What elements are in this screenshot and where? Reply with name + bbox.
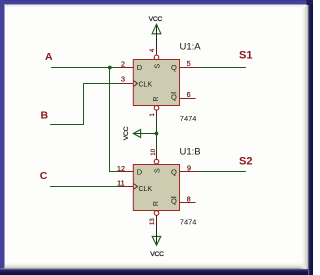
svg-text:R: R — [153, 97, 160, 102]
U1:B pin 8 (Q-bar) — [171, 194, 196, 205]
svg-text:12: 12 — [117, 164, 125, 173]
svg-text:S1: S1 — [239, 50, 252, 62]
svg-text:B: B — [41, 110, 49, 122]
power VCC terminal (middle) — [123, 126, 157, 140]
power VCC terminal (bottom) — [150, 222, 164, 258]
U1:A value label 7474 — [180, 114, 197, 123]
svg-text:7474: 7474 — [180, 114, 197, 123]
U1:B value label 7474 — [180, 217, 197, 226]
svg-text:CLK: CLK — [139, 81, 153, 88]
svg-text:Q: Q — [171, 92, 177, 101]
svg-text:S2: S2 — [239, 155, 252, 167]
flip-flop U1:A body (7474) — [133, 60, 179, 106]
svg-text:11: 11 — [117, 178, 124, 187]
svg-text:7474: 7474 — [180, 217, 197, 226]
svg-text:A: A — [45, 51, 53, 63]
U1:A designator label — [180, 41, 202, 52]
svg-text:VCC: VCC — [150, 251, 164, 258]
U1:A pin 3 (CLK) — [119, 74, 153, 88]
svg-text:VCC: VCC — [123, 126, 130, 140]
net label S2 — [239, 155, 252, 167]
svg-text:5: 5 — [187, 59, 191, 68]
net label B — [41, 110, 49, 122]
U1:B pin 11 (CLK) — [117, 178, 152, 193]
U1:B pin 13 (R-bar, bottom) — [150, 201, 160, 225]
U1:A pin 2 (D) — [119, 59, 143, 72]
svg-text:Q: Q — [171, 168, 177, 177]
U1:B designator label — [180, 146, 201, 157]
svg-text:S: S — [154, 64, 161, 69]
svg-text:U1:A: U1:A — [180, 41, 202, 52]
U1:A pin 4 (S-bar, top) — [150, 48, 161, 68]
net label A — [45, 51, 53, 63]
svg-text:9: 9 — [187, 163, 191, 172]
wire from node on wire A down to U1:B pin 12 — [110, 68, 120, 172]
svg-text:Q: Q — [171, 63, 177, 72]
svg-text:CLK: CLK — [139, 186, 153, 193]
svg-text:3: 3 — [121, 74, 125, 83]
svg-text:2: 2 — [121, 59, 125, 68]
wire A from input A to U1:A pin 2 — [51, 67, 119, 69]
svg-text:C: C — [40, 170, 48, 182]
junction node on wire A — [108, 66, 112, 70]
wire C from input C to U1:B pin 11 — [50, 186, 119, 188]
junction node on VCC middle wire — [155, 132, 159, 136]
U1:B pin 12 (D) — [117, 164, 143, 177]
U1:A pin 1 (R-bar, bottom) — [150, 97, 160, 117]
svg-text:6: 6 — [187, 90, 191, 99]
wire S2 from U1:B pin 9 — [195, 171, 246, 173]
U1:B pin 9 (Q) — [171, 163, 195, 176]
U1:A pin 6 (Q-bar) — [171, 90, 196, 101]
flip-flop U1:B body (7474) — [133, 165, 179, 211]
net label C — [40, 170, 48, 182]
wire between U1:A pin 1 and U1:B pin 10 — [156, 116, 158, 152]
U1:A pin 5 (Q) — [171, 59, 195, 72]
wire B from input B to U1:A pin 3 — [50, 84, 119, 125]
svg-text:10: 10 — [151, 148, 157, 155]
svg-text:8: 8 — [187, 194, 191, 203]
svg-text:13: 13 — [150, 218, 156, 225]
wire S1 from U1:A pin 5 — [195, 67, 246, 69]
U1:B pin 10 (S-bar, top) — [151, 148, 161, 173]
svg-text:R: R — [153, 201, 160, 206]
svg-text:U1:B: U1:B — [180, 146, 201, 157]
svg-text:S: S — [154, 168, 161, 173]
svg-text:D: D — [137, 168, 143, 177]
svg-text:VCC: VCC — [149, 16, 163, 23]
power VCC terminal (top) — [149, 16, 163, 49]
net label S1 — [239, 50, 252, 62]
svg-text:D: D — [137, 63, 143, 72]
svg-text:Q: Q — [171, 197, 177, 206]
